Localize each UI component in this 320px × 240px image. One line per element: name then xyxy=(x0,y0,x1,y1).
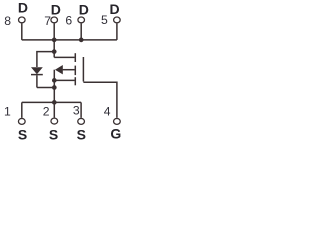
wire pin5 to drain bus xyxy=(116,24,118,40)
svg-text:D: D xyxy=(110,1,120,17)
junction dot source bus xyxy=(52,100,57,105)
wire pin1 to source bus xyxy=(21,102,23,117)
svg-text:S: S xyxy=(18,126,27,142)
transistor Q1 gate line xyxy=(82,57,84,82)
transistor Q1 body arrow xyxy=(55,65,63,74)
svg-text:4: 4 xyxy=(104,104,111,118)
pin 7 circle xyxy=(51,17,58,23)
wire body arrow to channel xyxy=(63,69,75,71)
wire diode anode branch xyxy=(37,52,54,67)
svg-text:D: D xyxy=(79,1,89,17)
wire pin3 to source bus xyxy=(80,102,82,117)
diode D1 cathode bar xyxy=(31,74,43,76)
svg-text:S: S xyxy=(77,126,86,142)
wire pin2 to source bus xyxy=(53,102,55,117)
svg-text:3: 3 xyxy=(73,104,80,118)
source bus xyxy=(22,101,81,103)
diode D1 triangle xyxy=(31,67,43,74)
wire pin8 to drain bus xyxy=(21,24,23,40)
pin 1 circle xyxy=(18,118,25,124)
svg-text:G: G xyxy=(110,126,121,142)
wire diode return to source node xyxy=(37,87,54,89)
wire drain stub down from bus xyxy=(53,40,55,58)
drain bus xyxy=(22,39,117,41)
svg-text:1: 1 xyxy=(4,105,11,119)
junction dot source wire xyxy=(52,78,57,83)
svg-text:D: D xyxy=(51,1,61,17)
junction dot diode anode tap xyxy=(52,49,57,54)
wire body-source vertical xyxy=(53,70,55,103)
wire drain to channel xyxy=(54,56,74,58)
svg-text:5: 5 xyxy=(101,13,108,27)
pin 5 circle xyxy=(114,17,121,23)
wire pin6 to drain bus xyxy=(80,24,82,40)
pin 8 circle xyxy=(19,17,26,23)
transistor Q1 channel bottom bar xyxy=(74,77,76,85)
svg-text:2: 2 xyxy=(43,105,50,119)
junction dot bus pin6 xyxy=(79,38,84,43)
transistor Q1 channel middle bar xyxy=(74,66,76,76)
svg-text:8: 8 xyxy=(4,14,11,28)
pin 6 circle xyxy=(78,17,85,23)
svg-text:7: 7 xyxy=(44,14,51,28)
junction dot bus pin7 xyxy=(52,38,57,43)
junction dot diode return xyxy=(52,85,57,90)
wire diode cathode down xyxy=(36,75,38,87)
svg-text:S: S xyxy=(49,126,58,142)
svg-text:6: 6 xyxy=(65,14,72,28)
pin 4 circle xyxy=(114,118,121,124)
svg-text:D: D xyxy=(18,0,28,16)
pin 3 circle xyxy=(78,118,85,124)
transistor Q1 channel top bar xyxy=(74,53,76,62)
wire gate to pin 4 xyxy=(83,82,117,118)
pin 2 circle xyxy=(51,118,58,124)
wire pin7 to drain bus xyxy=(53,24,55,40)
wire source to channel xyxy=(54,79,74,81)
